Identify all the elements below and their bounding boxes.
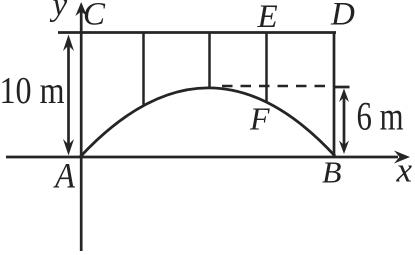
dimension arrow 6 m top head (339, 89, 349, 103)
svg-text:10 m: 10 m (0, 70, 65, 112)
deck line CD (58, 31, 336, 34)
y-axis arrowhead (75, 2, 87, 16)
dimension arrow 10 m bottom head (63, 139, 74, 156)
y-axis (80, 8, 83, 251)
tick at 6 m level (334, 86, 350, 89)
svg-text:C: C (83, 0, 106, 33)
svg-text:y: y (50, 0, 68, 23)
dimension arrow 6 m (line) (343, 93, 346, 149)
dimension arrow 10 m top head (63, 35, 74, 52)
hanger 3 (under E) (265, 33, 268, 103)
svg-text:A: A (53, 156, 76, 196)
svg-text:E: E (257, 0, 278, 35)
svg-text:6 m: 6 m (357, 94, 404, 139)
hanger 2 (208, 33, 211, 89)
hanger 1 (142, 33, 145, 105)
parabola arch AB (80, 88, 335, 157)
dimension arrow 6 m bottom head (339, 141, 349, 155)
svg-text:F: F (249, 101, 270, 137)
svg-text:x: x (396, 151, 413, 190)
dashed level line (222, 85, 335, 88)
x-axis arrowhead (394, 151, 410, 164)
svg-text:B: B (322, 155, 342, 190)
dimension arrow 10 m (line) (67, 40, 70, 150)
svg-text:D: D (330, 0, 355, 33)
right edge line DB (333, 33, 336, 158)
x-axis (6, 156, 398, 159)
